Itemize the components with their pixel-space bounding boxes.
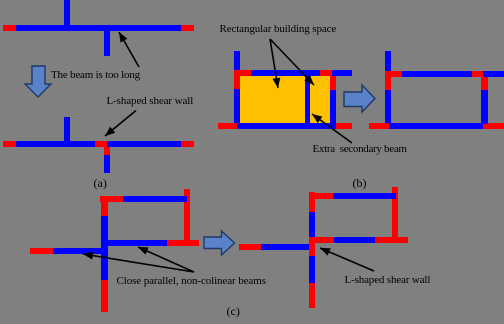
panel (c) right: middle beam blue span xyxy=(334,237,375,243)
panel (b) blue block arrow right xyxy=(344,85,375,112)
panel (a) upper hanging column stub xyxy=(104,31,110,56)
label: Close parallel, non-colinear beams xyxy=(117,276,266,287)
panel (a) upper beam blue span xyxy=(16,25,181,31)
label: Rectangular building space xyxy=(220,24,337,35)
panel (b) left: wall column left, blue top part xyxy=(234,51,240,70)
panel (b) right: right wall blue bottom part xyxy=(481,90,488,124)
panel (b) left: yellow rectangular building space xyxy=(240,76,330,123)
panel (c) left: top beam blue span xyxy=(123,196,187,202)
panel (b) annotation arrow to left building space xyxy=(270,39,278,88)
panel (b) right: bottom beam blue span xyxy=(389,123,483,129)
panel (c) left: left beam red end xyxy=(30,248,53,254)
panel (c) right: central column red bottom part xyxy=(309,283,315,308)
panel (a) lower beam blue left span xyxy=(16,141,95,147)
panel (c) right: top beam red corner piece xyxy=(309,193,333,199)
panel (a) upper column stub xyxy=(64,0,70,25)
panel (b) right: top beam red segment right xyxy=(472,71,483,77)
panel (c) right: L-shaped shear wall red horizontal arm / middle beam red xyxy=(309,237,334,243)
panel (b) left: wall column left, blue bottom part xyxy=(234,89,240,123)
panel (b) left: bottom beam blue span xyxy=(237,123,332,129)
panel (b) left: top beam blue span xyxy=(251,70,320,76)
panel (b) annotation arrow to right building space xyxy=(270,39,314,85)
panel (a) L-shaped shear wall red horizontal arm xyxy=(95,141,107,147)
panel (b) left: right wall red top part xyxy=(330,76,336,90)
panel (c) right: top beam blue span xyxy=(333,193,396,199)
panel (b) right: top beam blue right overhang xyxy=(483,71,504,77)
panel (a) annotation arrow to long beam xyxy=(119,32,139,67)
panel (a) lower beam blue right span xyxy=(107,141,181,147)
panel (c) right: L-shaped shear wall red vertical arm xyxy=(309,237,315,256)
panel (b) right: bottom beam red right piece xyxy=(483,123,504,129)
panel (a) upper beam left red wall end xyxy=(3,25,16,31)
panel (c) left: central column red top part xyxy=(101,196,108,216)
panel (b) left: top beam red corner piece xyxy=(234,70,251,76)
panel (b) left: top beam red segment right xyxy=(320,70,332,76)
panel (c) right: central column red top part xyxy=(309,192,315,212)
label: L-shaped shear wall (c) xyxy=(345,275,431,286)
panel (c) right: central column blue lower part xyxy=(309,256,315,283)
panel (b) annotation arrow to extra secondary beam xyxy=(312,114,352,143)
label: The beam is too long xyxy=(51,70,140,81)
panel (b) right: wall column left, blue top part xyxy=(385,51,391,71)
panel (a) L-shaped shear wall red vertical arm xyxy=(104,147,110,155)
panel (a) annotation arrow to L-shaped shear wall xyxy=(105,111,136,137)
panel (a) upper beam right red wall end xyxy=(181,25,194,31)
panel (b) right: wall column left, red middle part xyxy=(385,71,391,90)
label: (b) xyxy=(353,178,367,189)
panel (b) left: wall column left, red middle part xyxy=(234,70,240,89)
panel (c) right: left beam blue span xyxy=(261,244,309,250)
panel (c) annotation arrow to left non-colinear beam xyxy=(83,254,194,272)
panel (c) right: middle beam red right piece xyxy=(375,237,408,243)
panel (c) left: middle beam red right piece xyxy=(167,240,199,246)
panel (c) right: left beam red end xyxy=(239,244,261,250)
panel (c) left: left beam blue span xyxy=(53,248,102,254)
panel (a) lower column stub xyxy=(64,117,70,141)
panel (b) left: bottom beam red left piece xyxy=(218,123,237,129)
panel (a) lower beam left red end xyxy=(3,141,16,147)
panel (c) left: middle beam blue span xyxy=(107,240,167,246)
panel (a) lower beam right red end xyxy=(181,141,194,147)
panel (b) right: right wall red top part xyxy=(481,77,488,90)
panel (c) left: central column red bottom part xyxy=(101,280,108,312)
panel (b) left: right wall blue bottom part xyxy=(330,90,336,129)
panel (b) right: top beam red corner piece xyxy=(391,71,402,77)
panel (c) blue block arrow right xyxy=(204,231,235,255)
panel (c) left: top beam red corner piece xyxy=(100,196,123,202)
label: Extra secondary beam xyxy=(313,144,407,155)
panel (c) left: central column blue middle part xyxy=(101,216,108,280)
panel (c) left: right red column xyxy=(184,189,190,240)
panel (a) lower hanging blue column xyxy=(104,155,110,173)
panel (b) left: top beam blue right overhang xyxy=(332,70,352,76)
panel (c) right: central column blue upper part xyxy=(309,212,315,237)
panel (c) right: right red column xyxy=(392,187,398,237)
panel (b) right: bottom beam red left piece xyxy=(369,123,389,129)
panel (b) left: bottom beam red right piece xyxy=(332,123,352,129)
panel (c) annotation arrow to right non-colinear beam xyxy=(138,247,194,272)
panel (a) blue block arrow down xyxy=(25,66,51,97)
label: L-shaped shear wall (a) xyxy=(107,96,194,107)
panel (b) right: top beam blue span xyxy=(402,71,472,77)
panel (b) right: wall column left, blue bottom part xyxy=(385,90,391,123)
panel (c) annotation arrow to L-shaped shear wall xyxy=(320,248,374,271)
panel (b) left: extra secondary beam divider xyxy=(305,76,310,123)
label: (c) xyxy=(227,306,240,317)
label: (a) xyxy=(94,178,107,189)
